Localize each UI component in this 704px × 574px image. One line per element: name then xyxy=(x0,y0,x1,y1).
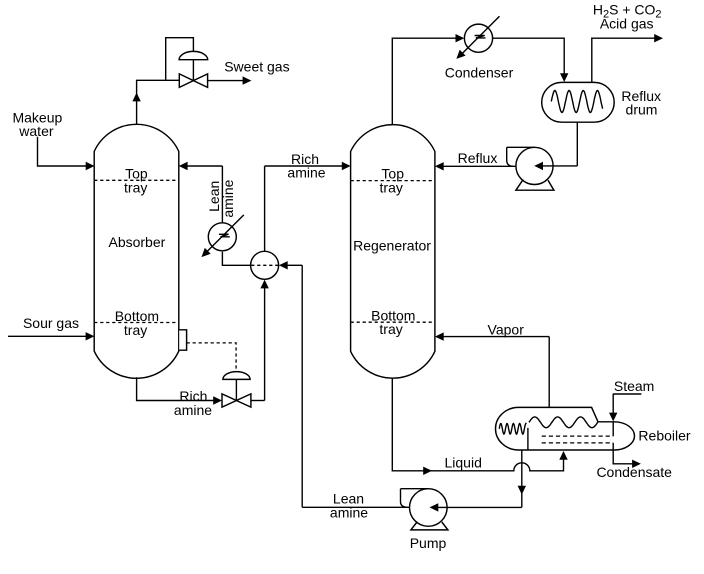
condenser diagonal xyxy=(461,16,500,55)
svg-text:Absorber: Absorber xyxy=(108,234,165,250)
junction dashed line xyxy=(251,264,278,266)
wire regenerator bottoms liquid line xyxy=(392,378,563,471)
wire reboiler bottoms to pump xyxy=(521,450,523,507)
wire absorber bottoms xyxy=(137,377,214,400)
valve V2 actuator dome xyxy=(223,372,250,380)
svg-text:amine: amine xyxy=(330,504,368,520)
heat exchanger E1 zigzag xyxy=(219,234,230,237)
pump P2 casing xyxy=(410,489,448,527)
svg-text:Regenerator: Regenerator xyxy=(353,238,431,254)
column absorber xyxy=(94,124,179,378)
valve V2 stem xyxy=(235,379,237,400)
reflux drum wave xyxy=(551,91,602,113)
absorber top tray dashed xyxy=(94,179,179,181)
svg-text:Sweet gas: Sweet gas xyxy=(224,59,289,75)
svg-text:Vapor: Vapor xyxy=(488,322,525,338)
svg-text:drum: drum xyxy=(626,102,658,118)
pump P2 base xyxy=(411,522,448,530)
wire rich amine riser to regenerator xyxy=(265,166,343,251)
junction crossing circle xyxy=(251,251,279,279)
svg-text:tray: tray xyxy=(380,180,403,196)
wire regenerator overhead to condenser xyxy=(392,38,456,124)
condenser E2 xyxy=(464,24,492,52)
wire valve outlet xyxy=(251,400,265,402)
svg-text:tray: tray xyxy=(124,322,147,338)
control dashed line xyxy=(187,343,237,371)
reflux drum xyxy=(542,82,615,122)
wire pump P2 suction xyxy=(438,506,522,508)
wire absorber overhead to valve xyxy=(137,80,180,124)
svg-text:Liquid: Liquid xyxy=(445,454,482,470)
svg-text:Acid gas: Acid gas xyxy=(600,15,654,31)
wire acid gas out xyxy=(592,38,655,82)
wire steam in xyxy=(613,394,642,413)
wire vapor into regenerator xyxy=(443,336,549,338)
wire valve bypass loop xyxy=(166,38,194,81)
svg-text:tray: tray xyxy=(379,321,402,337)
pump P1 base xyxy=(516,180,554,190)
svg-text:amine: amine xyxy=(174,402,212,418)
svg-text:Reboiler: Reboiler xyxy=(638,428,690,444)
wire lean amine from pump riser xyxy=(287,264,302,266)
valve V1 body xyxy=(179,74,207,88)
reboiler tube bundle dashed xyxy=(542,436,614,443)
svg-text:Pump: Pump xyxy=(410,535,447,551)
reboiler kettle xyxy=(495,407,634,450)
reboiler boiling wave xyxy=(529,417,598,428)
absorber bottom tray dashed xyxy=(94,322,179,324)
pump P2 volute xyxy=(401,489,429,508)
heat exchanger E1 diagonal xyxy=(206,215,244,253)
svg-text:Reflux: Reflux xyxy=(458,150,498,166)
wire pump suction xyxy=(543,165,578,167)
svg-text:Condensate: Condensate xyxy=(596,464,672,480)
svg-text:water: water xyxy=(18,123,54,139)
wire rich amine valve to junction xyxy=(264,288,266,401)
valve V1 actuator dome xyxy=(179,51,208,59)
heat exchanger E1 xyxy=(208,223,236,251)
svg-text:amine: amine xyxy=(287,165,325,181)
wire reflux into regenerator xyxy=(443,165,516,167)
wire condensate out xyxy=(613,450,632,464)
wire condenser to reflux drum xyxy=(492,38,564,73)
valve V1 stem xyxy=(192,60,194,81)
regenerator bottom tray dashed xyxy=(351,321,435,323)
reboiler internal steam pipe xyxy=(612,422,614,450)
wire vapor riser from reboiler xyxy=(548,337,550,408)
wire lean amine into absorber xyxy=(187,165,222,167)
regenerator top tray dashed xyxy=(351,180,435,182)
level tap box on absorber xyxy=(179,330,186,350)
wire makeup water feed xyxy=(38,137,87,166)
svg-text:Steam: Steam xyxy=(614,378,654,394)
wire lean amine riser xyxy=(221,166,223,223)
svg-text:Sour gas: Sour gas xyxy=(23,315,79,331)
wire reflux drum to pump xyxy=(576,122,578,166)
wire sweet gas out xyxy=(208,80,243,82)
reboiler weir xyxy=(527,428,529,450)
svg-text:Condenser: Condenser xyxy=(445,64,514,80)
wire exchanger to junction xyxy=(222,252,250,266)
svg-text:tray: tray xyxy=(124,180,147,196)
valve V2 body xyxy=(222,394,251,407)
wire sour gas feed xyxy=(8,335,86,337)
pump P1 casing xyxy=(516,147,553,184)
column regenerator xyxy=(351,125,435,379)
reboiler left squiggle xyxy=(499,424,526,435)
condenser zigzag xyxy=(475,35,486,38)
pump P1 volute xyxy=(507,147,535,166)
